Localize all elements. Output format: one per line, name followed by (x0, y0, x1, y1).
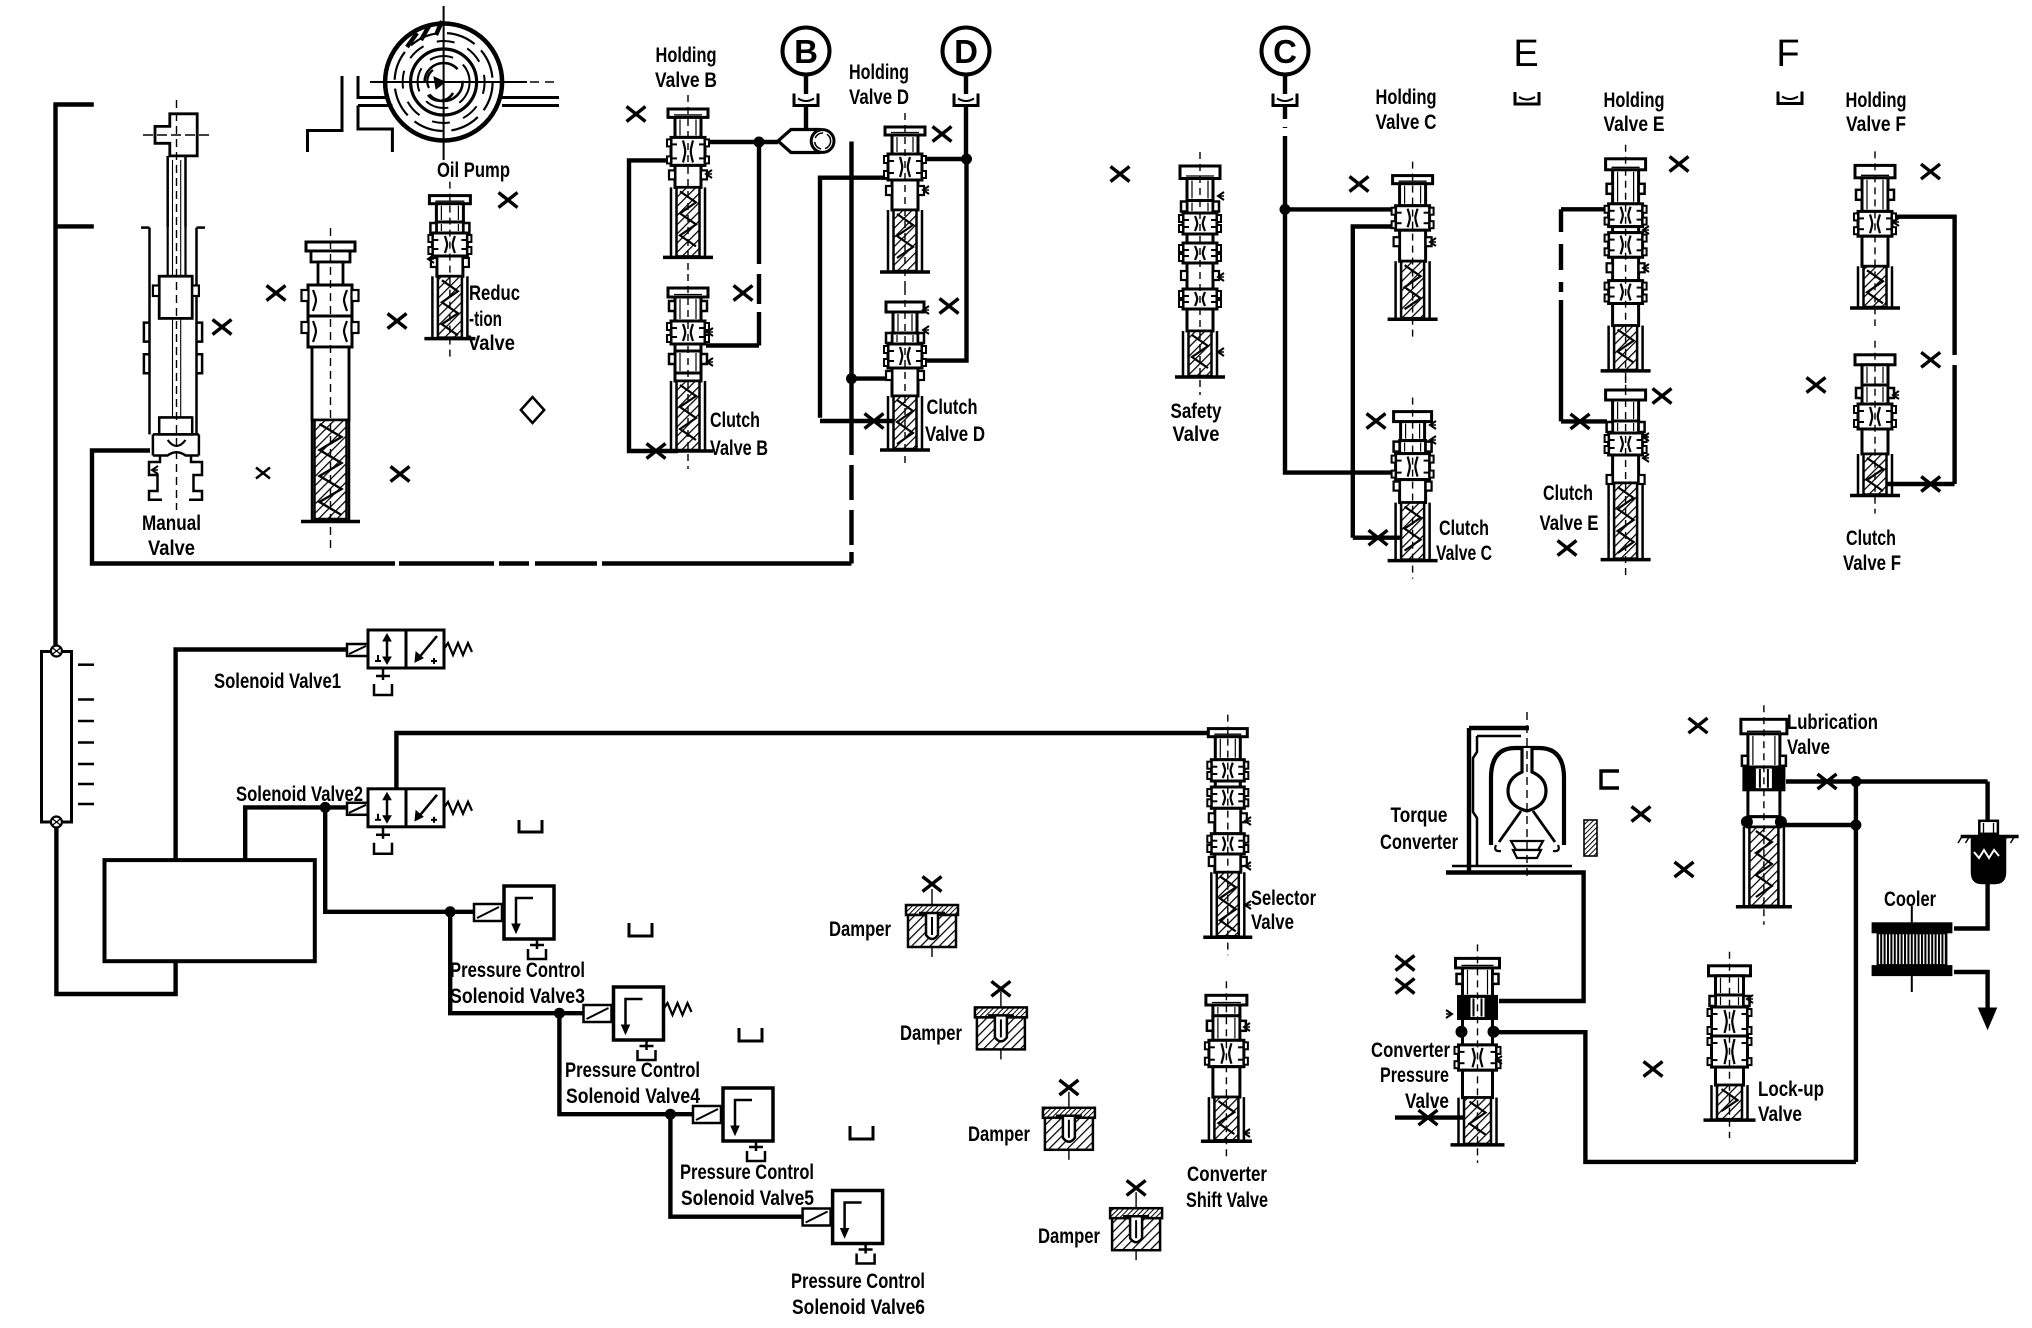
svg-text:Valve E: Valve E (1540, 512, 1599, 535)
solenoid valve 1 (347, 644, 368, 656)
svg-text:Valve: Valve (1787, 736, 1830, 759)
svg-text:Valve: Valve (1173, 423, 1220, 446)
small tank bracket near PCSV5 (850, 1126, 873, 1139)
svg-text:Torque: Torque (1391, 804, 1448, 827)
svg-text:Solenoid Valve1: Solenoid Valve1 (214, 670, 341, 693)
wire lube net vertical (1854, 782, 1858, 1162)
strainer (42, 652, 72, 823)
oil pump (385, 24, 502, 141)
svg-text:Valve C: Valve C (1376, 111, 1437, 134)
wire solenoid valve1 to ECU (176, 650, 348, 861)
clutch valve C (1394, 412, 1432, 422)
circle C (1262, 28, 1309, 75)
wire manual valve to line-pressure bus (92, 451, 395, 564)
clutch valve B (668, 288, 708, 297)
junction dot PCSV4 (554, 1008, 565, 1019)
svg-text:Valve: Valve (468, 332, 515, 355)
tank E (1515, 92, 1539, 104)
junction dot PCSV3 (445, 906, 456, 917)
wire clutch valve D left port (852, 376, 889, 380)
converter pressure valve (1456, 958, 1500, 968)
wire circle D down (964, 74, 968, 94)
svg-text:Solenoid Valve2: Solenoid Valve2 (236, 783, 363, 806)
wire converter pressure valve port2 (1499, 1032, 1856, 1162)
svg-text:Valve: Valve (1251, 911, 1294, 934)
svg-text:Reduc: Reduc (469, 282, 520, 305)
svg-text:B: B (794, 33, 818, 70)
svg-text:Damper: Damper (1038, 1225, 1100, 1248)
svg-text:-tion: -tion (469, 308, 502, 331)
svg-text:Valve: Valve (1405, 1090, 1449, 1113)
svg-text:Clutch: Clutch (927, 396, 978, 419)
selector valve (1208, 729, 1247, 737)
svg-text:Selector: Selector (1251, 887, 1316, 910)
wire cooler outlet arrow (1954, 972, 1988, 1008)
junction dot B (754, 137, 765, 148)
svg-text:Holding: Holding (849, 61, 909, 84)
wire holding valve E left to clutch valve E (1561, 207, 1609, 211)
small tank bracket near PCSV3 (629, 923, 652, 936)
svg-text:Valve: Valve (148, 537, 195, 560)
svg-text:Solenoid Valve3: Solenoid Valve3 (450, 985, 585, 1008)
svg-text:Damper: Damper (900, 1022, 962, 1045)
wire torque converter feed top (1469, 726, 1529, 730)
damper 2 (1000, 991, 1002, 1059)
svg-text:Converter: Converter (1380, 831, 1458, 854)
clutch valve F (1855, 355, 1895, 365)
svg-text:Valve: Valve (1758, 1103, 1802, 1126)
junction dot C (1280, 204, 1291, 215)
svg-text:Valve B: Valve B (655, 69, 717, 92)
wire holding valve B right port (704, 140, 778, 144)
wire shuttle output down (849, 142, 853, 456)
svg-text:Holding: Holding (1846, 89, 1907, 112)
holding valve D (885, 127, 925, 135)
valve 2 (306, 242, 355, 251)
wire holding valve D left branch (820, 178, 890, 418)
svg-text:Valve B: Valve B (710, 437, 768, 460)
svg-text:Damper: Damper (968, 1123, 1030, 1146)
wire bus stub (56, 224, 94, 228)
clutch valve D (886, 302, 924, 312)
manual valve (155, 114, 197, 156)
svg-text:Pressure Control: Pressure Control (791, 1270, 925, 1293)
bracket right of torque converter (1601, 771, 1619, 788)
junction dot lube 1 (1850, 776, 1861, 787)
svg-text:Clutch: Clutch (1846, 527, 1896, 550)
solenoid valve 2 (347, 803, 368, 815)
svg-text:Lubrication: Lubrication (1787, 711, 1878, 734)
damper 4 (1135, 1192, 1137, 1260)
svg-text:Damper: Damper (829, 918, 891, 941)
converter shift valve (1206, 995, 1247, 1005)
svg-text:Solenoid Valve5: Solenoid Valve5 (681, 1187, 814, 1210)
wire left supply bus (56, 105, 94, 646)
torque converter left bracket (1467, 728, 1471, 872)
oil pump piping (308, 76, 343, 152)
orifice marks (213, 320, 232, 335)
circle B (783, 28, 830, 75)
svg-text:Clutch: Clutch (1543, 482, 1593, 505)
wire C to holding valve C (1285, 207, 1396, 211)
svg-text:Solenoid Valve6: Solenoid Valve6 (792, 1296, 925, 1319)
wire torque converter bottom (1452, 865, 1572, 868)
svg-text:Cooler: Cooler (1884, 888, 1936, 911)
wire solenoid valve2 to selector valve (396, 733, 1213, 789)
svg-text:Pressure: Pressure (1380, 1064, 1449, 1087)
wire lubrication valve port2 (1784, 823, 1856, 827)
tank below C (1273, 94, 1297, 106)
junction dot lube 2 (1850, 820, 1861, 831)
circle D (943, 28, 990, 75)
reduction valve (429, 196, 470, 204)
tank below B (794, 94, 818, 106)
wire holding valve B left to clutch valve B spring (629, 160, 678, 451)
clutch valve E (1606, 390, 1646, 400)
pressure control solenoid valve 5 (693, 1106, 721, 1123)
wire holding valve F right to clutch valve F (1891, 217, 1955, 355)
wire C down to clutch valve C (1285, 209, 1396, 472)
svg-text:Holding: Holding (1604, 89, 1665, 112)
wire D to holding valve D (921, 157, 967, 161)
svg-text:E: E (1513, 33, 1538, 75)
pressure control solenoid valve 4 (584, 1005, 612, 1022)
svg-text:Valve D: Valve D (849, 86, 909, 109)
junction dot D (961, 154, 972, 165)
pressure control solenoid valve 6 (803, 1209, 831, 1226)
wire torque converter to converter pressure valve (1499, 873, 1584, 1002)
wire solenoid valve2 branch to PCSV3 (325, 807, 476, 911)
wire PCSV4 branch to PCSV5 (559, 1013, 694, 1114)
diamond mark (521, 397, 544, 423)
svg-text:C: C (1273, 33, 1297, 70)
wire holding valve C left to clutch valve C spring (1353, 227, 1396, 538)
svg-text:Oil Pump: Oil Pump (437, 159, 510, 182)
svg-text:Clutch: Clutch (710, 409, 760, 432)
junction dot clutch valve D (846, 373, 857, 384)
wire filter to cooler (1954, 881, 1988, 929)
pressure control solenoid valve 3 (474, 904, 502, 921)
wire D down to clutch valve D (922, 159, 967, 361)
wire lubrication valve port1 to filter (1786, 779, 1988, 783)
svg-text:Holding: Holding (656, 44, 717, 67)
wire circle B to shuttle (804, 74, 808, 94)
svg-text:Valve E: Valve E (1604, 113, 1665, 136)
wire junction B down to clutch valve B (757, 142, 761, 264)
svg-text:D: D (954, 33, 978, 70)
tank below D (954, 94, 978, 106)
oil filter top right (1979, 821, 1998, 834)
holding valve F (1855, 165, 1895, 177)
lubrication valve (1741, 719, 1787, 734)
svg-text:Clutch: Clutch (1439, 517, 1489, 540)
svg-text:Shift Valve: Shift Valve (1186, 1189, 1268, 1212)
wire converter pressure valve left orifice (1395, 1115, 1465, 1119)
tank F (1778, 92, 1802, 104)
svg-text:Valve D: Valve D (925, 423, 985, 446)
svg-text:Converter: Converter (1371, 1039, 1450, 1062)
wire circle C down (1283, 74, 1287, 94)
wire PCSV5 branch to PCSV6 (670, 1114, 804, 1217)
lock-up valve (1709, 966, 1751, 976)
holding valve C (1393, 176, 1433, 184)
svg-text:Valve F: Valve F (1846, 113, 1906, 136)
svg-text:Holding: Holding (1376, 86, 1437, 109)
shuttle valve B-D (778, 130, 829, 153)
svg-text:Converter: Converter (1187, 1163, 1267, 1186)
svg-text:Pressure Control: Pressure Control (450, 959, 585, 982)
small tank bracket near PCSV4 (739, 1028, 762, 1041)
cooler (1872, 922, 1953, 933)
svg-text:Lock-up: Lock-up (1758, 1078, 1824, 1101)
holding valve E (1606, 159, 1646, 170)
svg-text:Valve C: Valve C (1436, 542, 1492, 565)
svg-text:Solenoid Valve4: Solenoid Valve4 (566, 1085, 700, 1108)
wire strainer to ECU (56, 828, 175, 994)
junction dot SV2 (320, 802, 331, 813)
svg-text:Safety: Safety (1171, 400, 1222, 423)
damper 1 (931, 889, 933, 957)
safety valve (1180, 166, 1220, 179)
svg-text:Pressure Control: Pressure Control (680, 1161, 814, 1184)
wire filter down (1985, 782, 1989, 823)
ECU rectangle (105, 860, 315, 961)
svg-text:F: F (1776, 33, 1799, 75)
small tank bracket near SV2 (519, 820, 542, 832)
damper 3 (1068, 1092, 1070, 1160)
junction dot PCSV5 (665, 1109, 676, 1120)
svg-text:Manual: Manual (142, 512, 201, 535)
wire PCSV3 branch to PCSV4 (450, 912, 585, 1013)
wire solenoid valve2 to ECU (245, 807, 368, 860)
svg-text:Valve F: Valve F (1843, 552, 1901, 575)
holding valve B (668, 109, 708, 117)
svg-text:Pressure Control: Pressure Control (565, 1059, 700, 1082)
torque converter (1491, 748, 1564, 845)
